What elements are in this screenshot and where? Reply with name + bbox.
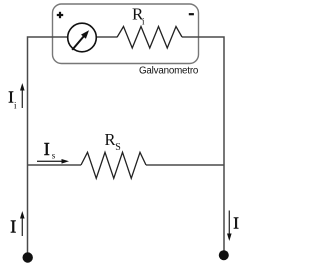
svg-text:s: s — [52, 151, 56, 161]
svg-text:I: I — [233, 214, 239, 233]
svg-text:I: I — [10, 217, 16, 237]
svg-text:I: I — [8, 87, 14, 106]
svg-text:Galvanometro: Galvanometro — [139, 66, 199, 77]
svg-text:R: R — [105, 130, 116, 149]
svg-text:S: S — [115, 142, 121, 153]
svg-text:I: I — [44, 139, 50, 159]
